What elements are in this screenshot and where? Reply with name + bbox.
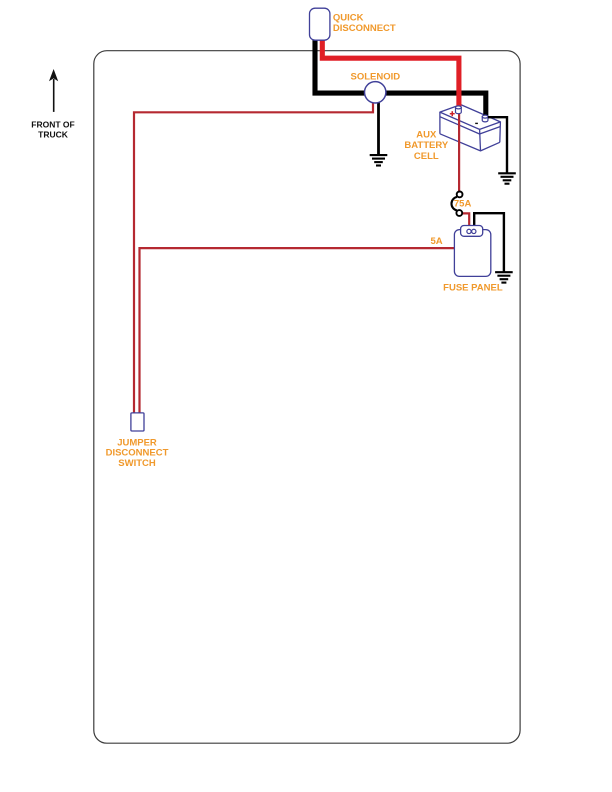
battery body (aux battery cell) bbox=[440, 105, 501, 151]
svg-text:5A: 5A bbox=[430, 236, 442, 247]
battery positive terminal bbox=[456, 106, 462, 114]
fuse panel body bbox=[454, 230, 490, 277]
wire: thin red solenoid to jumper disconnect switch bbox=[134, 96, 373, 413]
label JUMPER DISCONNECT SWITCH bbox=[106, 437, 169, 469]
svg-text:QUICK: QUICK bbox=[333, 13, 364, 24]
fuse panel connector box bbox=[461, 226, 483, 237]
wire: thin red 5A fuse panel to jumper disconnect switch bbox=[140, 248, 455, 413]
wire: black battery negative to ground bbox=[488, 117, 507, 172]
svg-text:TRUCK: TRUCK bbox=[38, 129, 69, 139]
fuse panel terminal pins bbox=[467, 229, 476, 233]
svg-text:DISCONNECT: DISCONNECT bbox=[333, 23, 396, 34]
label AUX BATTERY CELL bbox=[404, 130, 448, 162]
wire: thick red QD to battery positive bbox=[322, 40, 459, 108]
quick disconnect component bbox=[310, 8, 330, 40]
jumper disconnect switch bbox=[131, 413, 144, 431]
battery negative terminal bbox=[482, 115, 488, 122]
fuse 75A bbox=[451, 192, 462, 216]
wire: black fuse panel to ground bbox=[474, 213, 504, 271]
battery minus mark bbox=[475, 122, 478, 124]
wire: thin red battery positive down through battery to fuse bbox=[458, 108, 460, 191]
svg-text:CELL: CELL bbox=[414, 151, 439, 162]
wire: thick black QD to solenoid to battery negative bbox=[315, 40, 486, 117]
label QUICK DISCONNECT bbox=[333, 13, 396, 35]
ground (solenoid) bbox=[370, 155, 388, 165]
svg-text:SWITCH: SWITCH bbox=[118, 458, 156, 469]
ground (fuse panel) bbox=[495, 272, 513, 282]
label FRONT OF TRUCK bbox=[31, 119, 74, 139]
svg-text:DISCONNECT: DISCONNECT bbox=[106, 448, 169, 459]
wire: black solenoid to ground bbox=[377, 96, 380, 155]
front-of-truck arrow bbox=[49, 69, 58, 112]
wire: thin red fuse to fuse panel bbox=[461, 213, 469, 225]
svg-text:BATTERY: BATTERY bbox=[404, 140, 448, 151]
solenoid bbox=[365, 82, 386, 103]
svg-text:FUSE PANEL: FUSE PANEL bbox=[443, 282, 503, 293]
svg-text:75A: 75A bbox=[454, 199, 472, 210]
svg-text:FRONT OF: FRONT OF bbox=[31, 119, 74, 129]
svg-text:SOLENOID: SOLENOID bbox=[350, 72, 400, 83]
battery plus mark bbox=[450, 111, 455, 116]
ground (battery) bbox=[498, 173, 516, 183]
truck body outline bbox=[94, 51, 520, 744]
